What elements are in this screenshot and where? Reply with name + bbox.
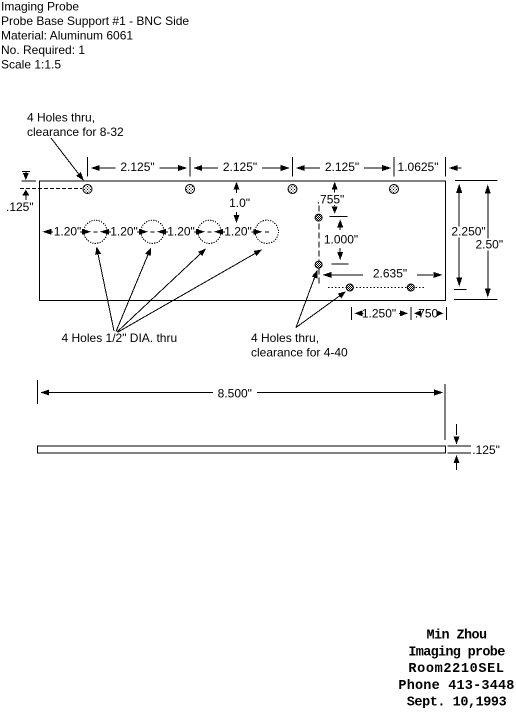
svg-text:Sept. 10,1993: Sept. 10,1993 (407, 696, 507, 708)
svg-text:4 Holes thru,: 4 Holes thru, (251, 331, 319, 345)
svg-text:1.250": 1.250" (362, 307, 396, 321)
svg-text:4 Holes thru,: 4 Holes thru, (27, 111, 95, 125)
svg-text:Probe Base Support #1 - BNC S: Probe Base Support #1 - BNC Side (1, 14, 189, 28)
svg-text:Room2210SEL: Room2210SEL (408, 662, 504, 677)
svg-text:Scale 1:1.5: Scale 1:1.5 (1, 57, 61, 71)
svg-text:8.500": 8.500" (218, 387, 252, 401)
svg-text:1.0": 1.0" (229, 196, 250, 210)
svg-text:2.125": 2.125" (120, 160, 154, 174)
svg-text:1.20": 1.20" (224, 225, 252, 239)
svg-text:1.20": 1.20" (54, 225, 82, 239)
svg-text:clearance for 8-32: clearance for 8-32 (27, 125, 124, 139)
svg-text:.125": .125" (6, 200, 34, 214)
svg-text:No. Required: 1: No. Required: 1 (1, 43, 85, 57)
svg-text:2.250": 2.250" (451, 225, 485, 239)
svg-text:2.50": 2.50" (476, 238, 504, 252)
svg-text:2.635": 2.635" (373, 267, 407, 281)
svg-text:clearance for 4-40: clearance for 4-40 (251, 346, 348, 360)
svg-text:1.0625": 1.0625" (398, 160, 439, 174)
svg-text:2.125": 2.125" (325, 160, 359, 174)
svg-text:Imaging probe: Imaging probe (408, 645, 505, 660)
svg-text:Imaging Probe: Imaging Probe (1, 0, 79, 14)
svg-text:Phone 413-3448: Phone 413-3448 (398, 679, 514, 694)
svg-text:.750: .750 (415, 307, 439, 321)
svg-text:2.125": 2.125" (223, 160, 257, 174)
svg-text:1.000": 1.000" (324, 233, 358, 247)
svg-text:Material: Aluminum 6061: Material: Aluminum 6061 (1, 28, 133, 42)
svg-text:4 Holes 1/2" DIA. thru: 4 Holes 1/2" DIA. thru (62, 331, 178, 345)
svg-text:1.20": 1.20" (167, 225, 195, 239)
svg-text:1.20": 1.20" (110, 225, 138, 239)
svg-text:.755": .755" (317, 193, 345, 207)
svg-text:.125": .125" (472, 443, 500, 457)
svg-text:Min Zhou: Min Zhou (426, 629, 487, 644)
